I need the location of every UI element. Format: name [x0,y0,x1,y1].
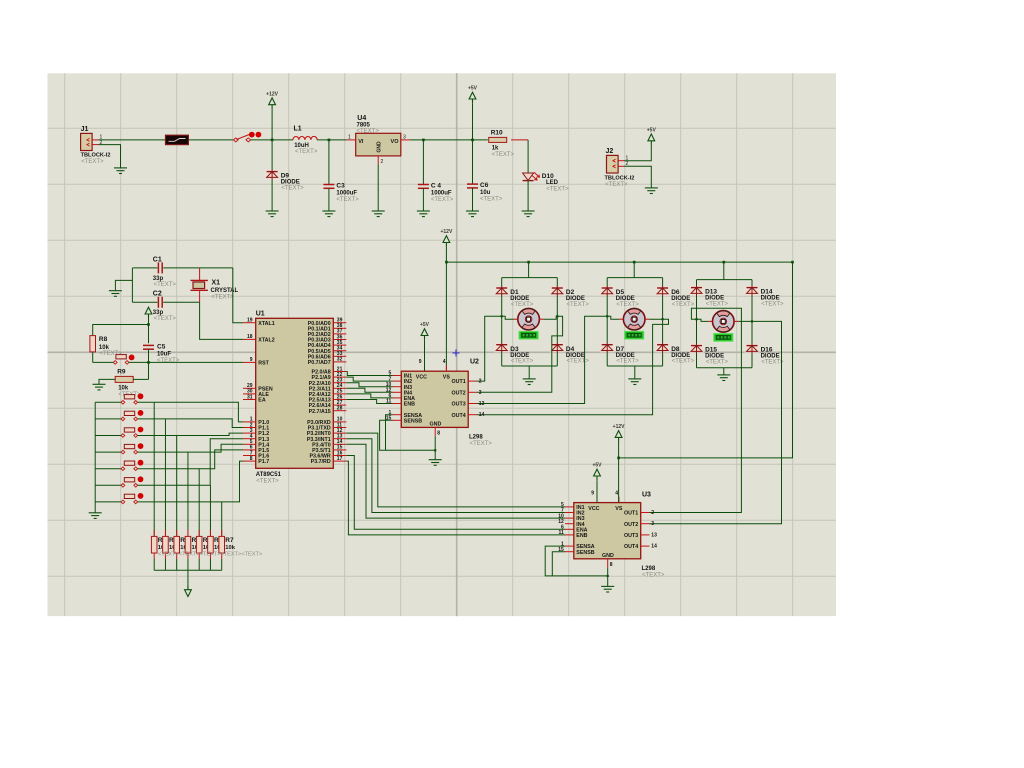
svg-text:J1: J1 [81,126,89,133]
power flag +12V [440,229,452,247]
wire +12V tap to cluster A [528,262,530,278]
svg-text:EA: EA [258,398,266,404]
wire U4 VO to R10 [410,139,488,141]
RPM display motor A [519,331,538,339]
resistor R4 [185,530,202,559]
svg-text:10u: 10u [480,190,491,196]
svg-text:D10: D10 [542,173,554,180]
U3 pins [558,491,657,568]
resistor R2 [163,530,180,559]
svg-text:LED: LED [546,180,559,186]
ground [109,291,122,297]
wire button row to resistor R7 [221,502,223,537]
svg-text:<TEXT>: <TEXT> [567,302,590,308]
svg-text:4: 4 [615,491,618,497]
wire cluster A bottom bar [502,365,558,367]
diode D4 [550,343,590,365]
wire rail to R8 top [93,325,149,336]
svg-text:C2: C2 [153,290,162,297]
wire U1 P3.4 to U3 [346,444,565,518]
svg-text:2: 2 [479,379,482,385]
wire button SW3 to U1 P1 pin [138,433,243,435]
wire D9 to ground [271,180,273,212]
svg-text:<TEXT>: <TEXT> [470,441,493,447]
wire U2 GND to ground [434,436,436,460]
wire bottom rail to down flag [187,570,189,588]
wire button SW4 left to rail [95,451,121,453]
wire U1 P3.6 to U3 [346,456,565,530]
svg-text:D7: D7 [616,346,625,353]
wire left vertical C1-C2 [131,268,133,302]
blue origin marker [453,349,460,356]
push button SW6 [121,476,143,487]
U1 left pins [243,318,275,466]
connector J1 (TBLOCK-I2) [81,126,111,165]
svg-text:U1: U1 [256,311,265,318]
svg-text:VS: VS [615,506,623,512]
svg-text:<TEXT>: <TEXT> [511,302,534,308]
svg-text:+12V: +12V [613,424,625,430]
svg-text:OUT4: OUT4 [452,413,466,419]
push button SW7 [121,493,143,504]
svg-text:10k: 10k [225,545,235,551]
svg-text:OUT3: OUT3 [452,402,466,408]
wire button left rail [94,402,96,513]
wire cluster B bottom bar [607,365,662,367]
wire rail down to C6 [472,140,474,184]
svg-text:<TEXT>: <TEXT> [336,197,359,203]
ground [114,168,127,174]
wire U3 SENSA loop to ground stem [545,546,608,576]
wire U1 P2.1 to U2 [346,377,392,381]
wire button SW1 left to rail [95,401,121,403]
svg-text:U3: U3 [642,492,651,499]
resistor R3 [174,530,191,559]
RPM display motor B [625,331,644,339]
ground [266,211,279,217]
svg-text:P1.7: P1.7 [258,459,269,465]
svg-text:14: 14 [651,544,657,550]
wire button row to resistor R1 [153,402,155,536]
svg-text:+5V: +5V [647,128,657,134]
capacitor C5 [143,343,180,363]
svg-text:D6: D6 [671,289,680,296]
wire U1 P2.5 to U2 [346,400,392,404]
wire +5V flag down to rail [472,103,474,140]
svg-text:33p: 33p [153,310,164,316]
wire cluster B top bar [607,277,662,279]
svg-text:OUT2: OUT2 [452,390,466,396]
wire R9 right to C5 node [133,378,148,380]
ground [89,513,102,519]
diode D8 [655,343,695,365]
wire +12V tap to cluster B [633,262,635,278]
svg-text:TBLOCK-I2: TBLOCK-I2 [605,176,635,182]
ground [322,211,335,217]
svg-text:GND: GND [377,141,383,153]
svg-text:18: 18 [247,334,253,340]
svg-text:<TEXT>: <TEXT> [492,152,515,158]
svg-text:<TEXT>: <TEXT> [81,159,104,165]
motor driver U2 L298 [401,359,492,448]
svg-text:<TEXT>: <TEXT> [672,302,695,308]
wire cluster A left diode column [501,278,503,366]
wire cluster A top bar [502,277,558,279]
svg-text:2: 2 [100,140,103,146]
capacitor C2 [153,290,177,322]
ground [429,460,442,466]
wire junction down to C3 [328,140,330,184]
svg-text:8: 8 [250,456,253,462]
wire cluster A right diode column [556,278,558,366]
fuse FU1 [166,135,189,144]
wire to crystal ground [115,280,132,290]
svg-text:+12V: +12V [440,229,452,235]
wire U1 P2.2 to U2 [346,383,392,387]
wire C1 row [132,267,157,269]
svg-text:<TEXT>: <TEXT> [706,302,729,308]
power flag +12V [266,91,278,109]
ground [522,211,535,217]
wire U1 P2.4 to U2 [346,394,392,398]
capacitor C3 [323,183,359,203]
motor M-B [619,308,649,330]
svg-text:10k: 10k [99,345,110,351]
svg-text:<TEXT><TEXT><TEXT><TEXT><TEXT>: <TEXT><TEXT><TEXT><TEXT><TEXT> [158,551,262,557]
ground [93,384,106,390]
wire motor C right to U3 OUT2 riser [649,321,782,523]
wire U4 GND to ground [377,165,379,212]
wire button row to resistor R6 [209,485,211,536]
motor driver U3 L298 [574,492,665,579]
svg-text:<TEXT>: <TEXT> [431,197,454,203]
wire button row to resistor R2 [164,419,166,537]
svg-text:9: 9 [419,359,422,365]
svg-text:<TEXT>: <TEXT> [256,479,279,485]
wire motor C left jog to U3 OUT1 riser [649,308,741,512]
wire +5V flag to U2 VCC [424,340,426,372]
svg-text:D2: D2 [566,289,575,296]
ground [417,211,430,217]
svg-text:C 4: C 4 [431,183,442,190]
svg-text:1000uF: 1000uF [431,191,452,197]
wire junction down to C4 [422,140,424,184]
wire U2 SENSA loop to ground stem [386,415,393,451]
diode D5 [600,286,640,308]
svg-text:SENSB: SENSB [404,418,422,424]
svg-text:XTAL1: XTAL1 [258,321,274,327]
wire motor A right to OUT2 riser [477,316,563,392]
node junction RST [147,361,150,364]
wire button SW6 to U1 P1 pin [138,439,243,486]
wire button SW1 to U1 P1 pin [138,402,243,422]
wire U1 P3.7 to U3 [346,461,565,535]
svg-text:R10: R10 [491,129,503,136]
svg-text:<TEXT>: <TEXT> [546,186,569,192]
diode D2 [550,286,590,308]
wire button row to resistor R3 [176,436,178,537]
svg-text:D8: D8 [671,346,680,353]
wire U1 P3.2 to U3 [346,433,565,507]
wire switch to L1 [251,139,293,141]
svg-text:<TEXT>: <TEXT> [154,282,177,288]
wire C2 row [132,301,157,303]
svg-text:X1: X1 [212,279,221,286]
node junction C3 [328,139,331,142]
wire cluster A ground tap [528,366,530,379]
power flag +5V [468,86,478,104]
svg-text:<TEXT>: <TEXT> [154,316,177,322]
svg-text:OUT2: OUT2 [624,522,638,528]
wire cluster C left diode column [696,280,698,368]
wire button SW7 to U1 P1 pin [138,461,243,502]
U2 pins [386,359,485,437]
svg-text:<TEXT>: <TEXT> [281,186,304,192]
svg-text:<TEXT>: <TEXT> [357,128,380,134]
svg-text:33p: 33p [153,276,164,282]
wire +12V flag down to rail [271,109,273,140]
wire button SW3 left to rail [95,435,121,437]
wire resistor pack bottom rail [153,559,155,570]
RPM display motor C [714,334,733,342]
resistor R8 [90,336,122,358]
svg-text:+5V: +5V [468,86,478,92]
wire +5V to C5 and R8 rail [148,318,150,344]
wire button SW5 to U1 P1 pin [138,450,243,469]
node junction R8 top rail [147,323,150,326]
svg-text:OUT3: OUT3 [624,533,638,539]
diode D1 [494,286,534,308]
svg-text:XTAL2: XTAL2 [258,338,274,344]
svg-text:<TEXT>: <TEXT> [642,573,665,579]
svg-text:R9: R9 [117,368,126,375]
svg-text:<TEXT>: <TEXT> [480,197,503,203]
wire J2 pin2 to ground [624,166,651,188]
wire U2 OUT1 to motor A left [477,316,514,381]
wire C1 row to XTAL1 [233,268,243,323]
diode D15 [689,344,729,366]
svg-text:<TEXT>: <TEXT> [616,302,639,308]
svg-text:<TEXT>: <TEXT> [295,149,318,155]
svg-text:D15: D15 [705,347,717,354]
svg-text:RST: RST [258,361,269,367]
svg-text:VCC: VCC [416,375,427,381]
svg-text:3: 3 [479,390,482,396]
capacitor C6 [467,182,503,202]
node junction C4 [422,139,425,142]
svg-text:GND: GND [602,553,614,559]
motor M-A [514,308,544,330]
svg-text:28: 28 [337,406,343,412]
svg-text:OUT1: OUT1 [452,379,466,385]
wire button SW5 left to rail [95,468,121,470]
svg-text:2: 2 [381,159,384,165]
svg-text:1k: 1k [492,145,499,151]
svg-text:8: 8 [437,431,440,437]
wire +12V top rail [446,261,792,263]
inductor L1 [293,126,318,156]
wire cluster B left diode column [606,278,608,366]
svg-text:10uF: 10uF [157,351,171,357]
wire cluster C top bar [697,279,753,281]
wire U1 P3.3 to U3 [346,439,565,513]
svg-text:VI: VI [358,139,364,145]
push button SW2 [121,410,143,421]
svg-text:D4: D4 [566,346,575,353]
svg-text:<TEXT>: <TEXT> [706,360,729,366]
svg-text:SENSB: SENSB [576,550,594,556]
resistor R10 [489,129,515,157]
wire C2 row to XTAL2 [200,302,243,339]
power flag +5V [647,128,657,146]
diode D16 [745,344,785,366]
wire +12V flag down to U2 VS [445,247,447,372]
crystal X1 [191,268,239,302]
svg-text:9: 9 [250,357,253,363]
wire button row to resistor R5 [198,469,200,537]
resistor R9 [115,368,141,397]
svg-text:D16: D16 [761,347,773,354]
node junction top rail [445,261,448,264]
wire C6 to ground [472,188,474,211]
svg-text:ENB: ENB [404,402,415,408]
svg-text:P2.7/A15: P2.7/A15 [309,409,331,415]
svg-text:10k: 10k [118,385,129,391]
wire cluster B ground tap [634,366,636,379]
wire R9 left to ground [99,379,115,384]
svg-text:+12V: +12V [266,91,278,97]
LED D10 [523,172,569,192]
svg-text:3: 3 [403,134,406,140]
wire button SW4 to U1 P1 pin [138,444,243,452]
svg-text:D3: D3 [510,346,519,353]
svg-text:ENB: ENB [576,533,587,539]
motor M-C [708,311,738,333]
svg-text:D1: D1 [510,289,519,296]
U1 right pins [307,318,346,466]
wire U2 SENSB loop [380,420,436,450]
svg-text:17: 17 [337,456,343,462]
svg-text:C6: C6 [480,182,489,189]
svg-text:U2: U2 [470,359,479,366]
wire R8 bottom to RST row [92,352,94,363]
svg-text:P3.7/RD: P3.7/RD [311,459,331,465]
svg-text:D13: D13 [705,289,717,296]
svg-text:OUT4: OUT4 [624,544,638,550]
svg-text:VS: VS [443,375,451,381]
svg-text:<TEXT>: <TEXT> [511,359,534,365]
svg-text:J2: J2 [606,148,614,155]
wire down to D10 [527,140,529,173]
capacitor C 4 [418,183,454,203]
svg-text:C1: C1 [153,257,162,264]
svg-text:13: 13 [651,532,657,538]
power flag +5V [592,463,602,481]
ground [466,211,479,217]
svg-text:9: 9 [591,491,594,497]
node junction +5V / C6 [471,139,474,142]
diode D13 [689,286,729,308]
svg-text:<TEXT>: <TEXT> [616,359,639,365]
resistor R7 [219,530,236,559]
svg-text:10uH: 10uH [294,143,309,149]
wire J2 pin1 to +5V [624,145,651,161]
svg-text:OUT1: OUT1 [624,511,638,517]
svg-text:1000uF: 1000uF [336,191,357,197]
svg-text:8: 8 [610,562,613,568]
wire cluster C right diode column [751,280,753,368]
svg-text:CRYSTAL: CRYSTAL [211,288,239,294]
svg-text:R8: R8 [99,336,108,343]
wire J1 pin2 to ground [98,145,121,168]
push button SW1 [121,393,143,404]
wire U1 P2.3 to U2 [346,388,392,392]
wire button SW2 left to rail [95,418,121,420]
wire R10 right stub [511,139,528,141]
wire +12V tap to cluster C [723,262,725,280]
wire C5 to RST node and R9 [148,349,150,379]
wire L1 to U4 VI [317,139,346,141]
svg-text:+5V: +5V [592,463,602,469]
push button SW5 [121,460,143,471]
wire cluster C bottom bar [697,367,753,369]
wire U1 P2.0 to U2 [346,372,392,376]
svg-text:D9: D9 [281,173,290,180]
svg-text:AT89C51: AT89C51 [256,472,282,478]
wire cluster C ground tap [723,368,725,375]
wire button row to resistor R4 [187,452,189,536]
ground [523,379,536,385]
wire fuse to switch [188,139,233,141]
ground [372,211,385,217]
wire U2 OUT3 to motor B left [477,316,619,403]
svg-text:32: 32 [337,357,343,363]
microcontroller U1 AT89C51 [256,311,334,485]
svg-text:C5: C5 [157,343,166,350]
power flag +12V [613,424,625,442]
svg-text:C3: C3 [336,183,345,190]
push button SW4 [121,443,143,454]
wire rail down to D9 [271,140,273,170]
ground [645,188,658,194]
diode D14 [745,286,785,308]
ground [717,375,730,381]
wire U3 SENSB loop [552,552,565,576]
wire motor B right to OUT4 riser [477,319,669,415]
svg-text:<TEXT>: <TEXT> [567,359,590,365]
svg-text:19: 19 [247,318,253,324]
svg-text:+5V: +5V [420,322,430,328]
wire +12V flag to U3 VS [618,442,620,503]
switch SW-SPST [233,132,261,142]
ground [601,586,614,592]
wire button SW6 left to rail [95,484,121,486]
wire button SW7 left to rail [95,501,121,503]
svg-text:R7: R7 [225,537,234,544]
svg-text:<TEXT>: <TEXT> [605,182,628,188]
wire J1 pin1 to fuse [98,139,166,141]
svg-text:D14: D14 [761,289,773,296]
svg-text:VCC: VCC [588,506,599,512]
svg-text:14: 14 [479,412,485,418]
svg-text:<TEXT>: <TEXT> [761,302,784,308]
wire +5V flag to U3 VCC [596,480,598,502]
svg-text:L298: L298 [469,435,483,441]
diode D3 [494,343,534,365]
svg-text:D5: D5 [616,289,625,296]
svg-text:L298: L298 [642,566,656,572]
svg-text:2: 2 [651,510,654,516]
